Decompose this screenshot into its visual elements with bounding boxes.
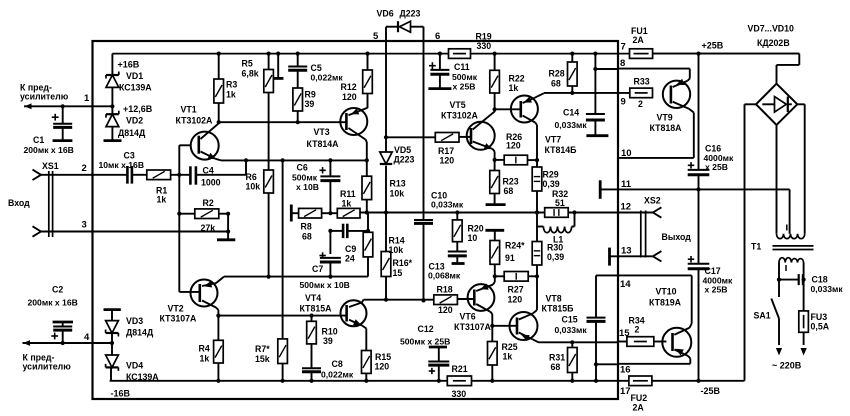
text ~ 220В <box>772 361 802 371</box>
wire C4 right to emitter line <box>196 158 248 175</box>
wire R17 to VT5 base <box>459 136 471 138</box>
label R3 <box>226 80 237 90</box>
svg-text:R23: R23 <box>503 176 519 186</box>
label C12 <box>418 324 434 334</box>
resistor R12 <box>363 52 373 109</box>
label XS1 <box>42 161 59 171</box>
value R19 330 <box>477 41 492 51</box>
svg-text:R31: R31 <box>549 353 565 363</box>
label C16 <box>705 144 721 154</box>
wire pin 5 column <box>385 41 387 152</box>
svg-text:XS1: XS1 <box>42 161 59 171</box>
value R22 1k <box>509 83 519 93</box>
wire pin 8 line inside <box>595 68 618 70</box>
svg-text:КТ3107А: КТ3107А <box>454 322 492 332</box>
svg-text:Выход: Выход <box>662 232 692 242</box>
resistor R5 <box>264 52 274 93</box>
wire VT1 collector line to VT3 base <box>219 121 347 123</box>
wire node A column <box>177 145 191 292</box>
svg-text:C5: C5 <box>311 63 322 73</box>
label R6 <box>246 172 257 182</box>
svg-text:+12,6В: +12,6В <box>123 104 153 114</box>
svg-text:6: 6 <box>435 31 440 42</box>
value R24 91 <box>505 253 515 263</box>
wire VT2 emitter down <box>216 308 220 318</box>
capacitor C3 <box>127 166 131 184</box>
value R32 51 <box>555 198 565 208</box>
svg-text:200мк x 16В: 200мк x 16В <box>28 298 78 308</box>
label L1 <box>553 234 563 244</box>
arrow VT6 collector-arrow <box>480 284 488 290</box>
svg-text:120: 120 <box>375 361 390 371</box>
value C6 500мк <box>292 172 318 182</box>
arrow pin1 left <box>25 103 32 109</box>
svg-text:6,8k: 6,8k <box>242 68 259 78</box>
svg-text:R3: R3 <box>226 80 237 90</box>
svg-text:R6: R6 <box>246 172 257 182</box>
arrow mains right <box>801 348 807 356</box>
label C11 <box>454 62 470 72</box>
label VT10 <box>656 287 677 297</box>
wire common line pin 11 <box>600 187 789 191</box>
common line bar <box>599 180 602 199</box>
text -25В <box>701 386 721 396</box>
resistor R32 <box>535 208 568 218</box>
capacitor C14 <box>586 52 609 136</box>
label R21 <box>452 364 468 374</box>
value C11 500мк <box>452 72 478 82</box>
value R34 2 <box>635 324 640 334</box>
wire pin 4 to preamp <box>23 342 112 344</box>
label VT3 <box>314 127 330 137</box>
value R31 68 <box>551 362 561 372</box>
text -16В <box>111 389 131 399</box>
svg-text:КС139А: КС139А <box>119 82 152 92</box>
svg-text:R24*: R24* <box>505 240 525 250</box>
svg-text:16: 16 <box>620 365 631 376</box>
value R15 120 <box>375 361 390 371</box>
diode VD6 D223 <box>386 21 424 32</box>
arrow VT4 emitter <box>353 319 362 325</box>
label C5 <box>311 63 322 73</box>
svg-text:-25В: -25В <box>701 386 721 396</box>
node C9 tap left <box>328 229 332 233</box>
resistor R25 <box>488 326 498 383</box>
label VT7 <box>545 135 561 145</box>
connector XS1 pin3 fork <box>33 226 42 236</box>
label R27 <box>508 284 524 294</box>
label R33 <box>634 76 650 86</box>
node R17 tap <box>384 135 388 139</box>
transistor VT6 KT3107A <box>468 284 495 312</box>
value R9 39 <box>305 99 315 109</box>
svg-text:R20: R20 <box>468 223 484 233</box>
svg-text:R25: R25 <box>502 342 518 352</box>
label R12 <box>341 82 357 92</box>
value C7 500мк x 10В <box>300 280 350 290</box>
label R19 <box>476 32 492 42</box>
label C13 <box>429 261 445 271</box>
value R11 1k <box>342 198 352 208</box>
wire primary right down <box>802 263 806 311</box>
resistor R13 <box>362 160 372 214</box>
svg-text:7: 7 <box>621 42 626 53</box>
svg-text:Д814Д: Д814Д <box>118 128 146 138</box>
svg-text:FU3: FU3 <box>811 312 828 322</box>
fuse FU1 2A <box>630 49 653 59</box>
resistor R26 <box>495 155 537 165</box>
value C11 x 25В <box>453 82 476 92</box>
label R18 <box>437 285 453 295</box>
capacitor C15 <box>587 275 619 383</box>
wire pin 9 line <box>544 92 630 94</box>
value VD2 Д814Д <box>118 128 146 138</box>
svg-text:C6: C6 <box>297 163 308 173</box>
feedback left bar <box>290 205 293 222</box>
svg-text:КТ815А: КТ815А <box>300 303 333 313</box>
label R4 <box>199 344 210 354</box>
wire +16V/+25V top rail <box>112 53 799 55</box>
value VD3 Д814Д <box>126 327 154 337</box>
wire VT3 collector down <box>365 140 369 163</box>
resistor R6 <box>264 93 274 279</box>
svg-text:2: 2 <box>635 324 640 334</box>
value C16 x 25В <box>705 162 728 172</box>
svg-text:91: 91 <box>505 253 515 263</box>
label C9 <box>345 244 356 254</box>
value VD5 Д223 <box>394 154 415 164</box>
transistor VT4 KT815A <box>341 300 367 326</box>
svg-text:10k: 10k <box>246 182 261 192</box>
svg-text:24: 24 <box>345 254 355 264</box>
value VD1 КС139А <box>119 82 152 92</box>
svg-text:усилителю: усилителю <box>23 362 72 372</box>
svg-text:-16В: -16В <box>111 389 131 399</box>
svg-text:R29: R29 <box>543 169 559 179</box>
label VD7...VD10 <box>748 24 795 34</box>
svg-text:2A: 2A <box>633 402 645 412</box>
svg-text:15: 15 <box>393 268 403 278</box>
resistor R7* <box>278 158 288 383</box>
svg-text:0,022мк: 0,022мк <box>311 72 344 82</box>
wire bridge left to -25V <box>745 104 757 381</box>
svg-text:120: 120 <box>440 155 455 165</box>
label C10 <box>431 190 447 200</box>
zener VD3 D814D <box>104 310 121 343</box>
svg-text:VT6: VT6 <box>460 312 476 322</box>
svg-text:C3: C3 <box>124 151 135 161</box>
svg-text:C12: C12 <box>418 324 434 334</box>
bridge rectifier VD7-VD10 <box>756 84 797 125</box>
label VD3 <box>126 316 143 326</box>
value FU3 0,5А <box>811 322 830 332</box>
pin 9 label <box>621 97 626 108</box>
label VT4 <box>305 293 321 303</box>
connector XS2 fork bottom <box>653 251 662 261</box>
capacitor C16 4000мк <box>688 54 710 190</box>
svg-text:0,033мк: 0,033мк <box>555 325 588 335</box>
pin 2 label <box>82 163 87 174</box>
value R28 68 <box>551 78 561 88</box>
label VT1 <box>181 105 197 115</box>
label VT8 <box>546 294 562 304</box>
resistor R31 <box>568 340 578 383</box>
wire pin6 stub above box <box>423 27 425 41</box>
value КД202В <box>757 38 790 48</box>
svg-text:1k: 1k <box>200 353 210 363</box>
pin 1 label <box>84 93 90 104</box>
wire pin 13 line <box>610 255 653 257</box>
arrow VT10 emitter-arrow <box>675 349 684 356</box>
label R34 <box>629 315 645 325</box>
label T1 <box>751 242 761 252</box>
svg-text:VD2: VD2 <box>126 116 143 126</box>
text Вход <box>8 198 30 208</box>
label R14 <box>389 235 405 245</box>
value R33 2 <box>638 99 643 109</box>
svg-text:C1: C1 <box>33 135 44 145</box>
svg-text:VT5: VT5 <box>450 100 466 110</box>
resistor R21 in rail <box>447 376 471 386</box>
svg-text:R22: R22 <box>509 73 525 83</box>
resistor R9 <box>293 88 303 124</box>
wire pin 14 line to VT10 collector <box>618 275 692 323</box>
wire -16V/-25V bottom rail <box>110 380 745 382</box>
arrow VT3 emitter <box>351 108 360 114</box>
wire pin 2 input line <box>41 174 127 176</box>
label XS2 <box>644 196 661 206</box>
svg-text:C18: C18 <box>812 274 828 284</box>
connector XS1 pin2 fork <box>33 170 42 180</box>
wire pin 16 line inside <box>596 363 618 365</box>
wire VT8 collector up <box>533 276 537 313</box>
svg-text:5: 5 <box>373 31 379 42</box>
value VT9 КТ818А <box>650 123 683 133</box>
value C10 0,033мк <box>431 200 464 210</box>
value VT10 КТ819А <box>649 298 682 308</box>
value R25 1k <box>503 352 513 362</box>
text +12,6В <box>123 104 153 114</box>
value C16 4000мк <box>704 153 734 163</box>
node VD5 output junction <box>384 210 388 214</box>
label VD4 <box>126 361 143 371</box>
label R28 <box>549 69 565 79</box>
svg-text:68: 68 <box>302 231 312 241</box>
label C7 <box>312 264 323 274</box>
svg-text:C15: C15 <box>562 314 578 324</box>
value R13 10k <box>390 188 405 198</box>
wire VT2 base <box>179 291 200 293</box>
zener VD4 KC139A <box>106 343 119 381</box>
label C4 <box>203 166 214 176</box>
value C2 200мк x 16В <box>28 298 78 308</box>
resistor R29 <box>532 160 542 214</box>
capacitor C4 <box>190 166 196 184</box>
value C15 0,033мк <box>555 325 588 335</box>
svg-text:12: 12 <box>621 202 632 213</box>
resistor R19 in rail <box>449 49 471 59</box>
pin 17 label <box>620 386 631 397</box>
value R4 1k <box>200 353 210 363</box>
label VT6 <box>460 312 476 322</box>
test stub near R5 <box>273 52 283 79</box>
label C3 <box>124 151 135 161</box>
wire output to pin 12 <box>568 212 653 214</box>
svg-text:КТ3102А: КТ3102А <box>441 111 479 121</box>
svg-text:51: 51 <box>555 198 565 208</box>
value VT6 КТ3107А <box>454 322 492 332</box>
wire VT7 base <box>495 108 521 110</box>
svg-text:x 25В: x 25В <box>453 82 476 92</box>
capacitor C11 500мк <box>428 52 451 89</box>
wire VT4 base line <box>218 315 346 317</box>
value R30 0,39 <box>547 252 564 262</box>
wire VT5 emitter down <box>493 149 497 162</box>
resistor R33 <box>630 88 653 98</box>
svg-text:C9: C9 <box>345 244 356 254</box>
svg-text:Д223: Д223 <box>394 154 415 164</box>
svg-text:+16В: +16В <box>118 60 140 70</box>
wire primary left down <box>777 263 781 298</box>
switch SA1 <box>771 299 779 346</box>
label R29 <box>543 169 559 179</box>
label VT9 <box>657 113 673 123</box>
svg-text:39: 39 <box>305 99 315 109</box>
label FU1 <box>631 26 648 36</box>
transistor VT3 KT814A <box>340 108 367 140</box>
fuse FU2 2A <box>629 376 652 386</box>
arrow VT5 emitter <box>484 143 493 149</box>
svg-text:R27: R27 <box>508 284 524 294</box>
value R5 6,8k <box>242 68 259 78</box>
label VT2 <box>168 304 184 314</box>
svg-text:120: 120 <box>342 92 357 102</box>
svg-text:1000: 1000 <box>201 178 221 188</box>
label FU2 <box>631 393 648 403</box>
label C8 <box>332 359 343 369</box>
svg-text:R28: R28 <box>549 69 565 79</box>
label R7* <box>255 344 270 354</box>
transistor VT10 KT819A <box>662 328 691 357</box>
resistor R1 <box>147 170 171 180</box>
svg-text:R10: R10 <box>322 326 338 336</box>
wire output feedback line <box>360 212 545 214</box>
wire VT1 emitter line <box>216 159 367 161</box>
node R8 R11 junction <box>322 211 338 215</box>
value C3 10мк x 16В <box>99 160 145 170</box>
resistor R3 <box>214 52 224 123</box>
value C18 0,033мк <box>811 284 844 294</box>
label R31 <box>549 353 565 363</box>
label R2 <box>203 198 214 208</box>
svg-text:R9: R9 <box>305 89 316 99</box>
svg-text:0,068мк: 0,068мк <box>428 271 461 281</box>
svg-text:VT1: VT1 <box>181 105 197 115</box>
text усилителю (top) <box>20 92 69 102</box>
svg-text:1k: 1k <box>226 89 236 99</box>
svg-text:2A: 2A <box>633 35 645 45</box>
transistor VT5 KT3102A <box>467 112 495 150</box>
label R8 <box>301 221 312 231</box>
pin 13 label <box>621 246 632 257</box>
value R18 120 <box>438 305 453 315</box>
svg-text:3: 3 <box>82 220 87 231</box>
inductor L1 <box>537 210 577 232</box>
value VT8 КТ815Б <box>542 304 575 314</box>
svg-text:1k: 1k <box>509 83 519 93</box>
svg-text:R11: R11 <box>340 189 356 199</box>
value VT2 КТ3107А <box>160 314 198 324</box>
node -25V junction <box>696 379 700 383</box>
svg-text:Вход: Вход <box>8 198 30 208</box>
text +25В <box>702 41 724 51</box>
pin 5 label <box>373 31 379 42</box>
wire pin 6 column <box>423 41 425 219</box>
svg-text:VT2: VT2 <box>168 304 184 314</box>
transistor VT8 KT815B <box>510 312 538 340</box>
svg-text:КТ814Б: КТ814Б <box>545 145 578 155</box>
resistor R16* <box>381 213 391 302</box>
wire pin5 stub above box <box>385 27 387 41</box>
label R23 <box>503 176 519 186</box>
label C17 <box>705 266 721 276</box>
capacitor C12 500мк <box>428 347 449 383</box>
svg-text:XS2: XS2 <box>644 196 661 206</box>
wire VT4 collector line <box>362 298 434 302</box>
value FU2 2A <box>633 402 645 412</box>
capacitor C13 <box>448 252 467 264</box>
label R10 <box>322 326 338 336</box>
node VT5 collector junction <box>493 107 497 112</box>
arrow VT1 emitter <box>208 153 216 159</box>
svg-text:VD6: VD6 <box>377 9 394 19</box>
arrow VT8 emitter-arrow <box>521 335 530 341</box>
value FU1 2A <box>633 35 645 45</box>
wire VT7 collector down <box>535 123 539 163</box>
svg-text:R12: R12 <box>341 82 357 92</box>
pin 16 label <box>620 365 631 376</box>
pin 12 label <box>621 202 632 213</box>
svg-text:330: 330 <box>452 389 467 399</box>
text +16В <box>118 60 140 70</box>
label VD6 <box>377 9 394 19</box>
resistor R27 <box>495 272 539 282</box>
svg-text:R4: R4 <box>199 344 210 354</box>
pin 10 label <box>621 148 632 159</box>
label R11 <box>340 189 356 199</box>
svg-text:R5: R5 <box>242 59 253 69</box>
resistor R15 <box>362 351 372 383</box>
value R16 15 <box>393 268 403 278</box>
svg-text:2: 2 <box>638 99 643 109</box>
pin 8 label <box>620 58 625 69</box>
node pin 1 wire to preamp <box>24 105 112 107</box>
wire bridge bottom to secondary <box>776 125 778 234</box>
value R7 15k <box>255 354 270 364</box>
label R25 <box>502 342 518 352</box>
value R17 120 <box>440 155 455 165</box>
svg-text:10мк x 16В: 10мк x 16В <box>99 160 145 170</box>
svg-text:13: 13 <box>621 246 632 257</box>
svg-text:x 10В: x 10В <box>296 182 319 192</box>
resistor R23 <box>486 160 506 205</box>
label VD5 <box>394 145 411 155</box>
label C14 <box>563 107 579 117</box>
wire VT7 emitter to pin9 line <box>535 93 544 98</box>
svg-text:4: 4 <box>84 332 90 343</box>
amplifier module box outline <box>93 41 619 399</box>
wire bridge right to secondary <box>797 104 804 234</box>
